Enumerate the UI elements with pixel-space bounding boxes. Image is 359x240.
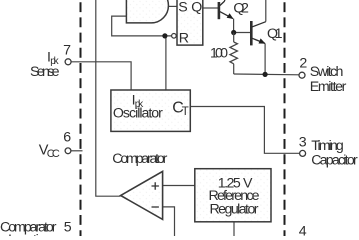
IC boundary dashed line left: [80, 2, 82, 236]
svg-text:Switch: Switch: [310, 64, 344, 80]
wire: comparator output up left side: [96, 0, 121, 196]
latch (S-R flip flop): [177, 0, 203, 45]
wire: Q2 emitter down to node: [233, 19, 235, 33]
junction emitter rail node: [263, 72, 268, 77]
junction oscillator/R node: [162, 33, 167, 38]
wire: Vcc stub pin 6: [71, 150, 83, 152]
pin 3 terminal: [300, 150, 306, 156]
svg-text:Q: Q: [191, 0, 202, 16]
oscillator box: [111, 90, 190, 131]
wire: oscillator output up to R / AND gate: [166, 36, 172, 91]
wire: reference to comparator + input: [163, 185, 195, 187]
pin 7 terminal: [65, 59, 71, 65]
svg-text:4: 4: [299, 224, 307, 236]
wire: pin 7 Ipk sense to oscillator: [71, 62, 132, 91]
resistor 100 leads: [233, 33, 235, 43]
wire: CT to pin 3: [190, 107, 299, 154]
wire: Q1 collector up: [265, 0, 267, 22]
wire: node to Q1 base: [234, 32, 251, 34]
svg-text:Q1: Q1: [267, 26, 283, 42]
pin 6 terminal: [65, 148, 71, 154]
wire: latch Q to Q2 base: [203, 7, 219, 9]
svg-text:3: 3: [299, 134, 307, 150]
resistor R 100 zigzag: [230, 42, 237, 64]
AND gate U1: [126, 0, 168, 23]
wire: Q1 emitter down: [264, 44, 266, 75]
transistor Q2: [219, 0, 233, 19]
svg-text:Inverting: Inverting: [8, 232, 52, 236]
svg-text:Oscillator: Oscillator: [113, 106, 163, 122]
svg-text:Capacitor: Capacitor: [311, 153, 358, 169]
svg-text:5: 5: [64, 219, 72, 235]
svg-text:7: 7: [63, 43, 71, 59]
svg-text:6: 6: [63, 130, 71, 146]
wire: oscillator net to AND gate lower input: [112, 16, 166, 36]
svg-text:Emitter: Emitter: [310, 79, 347, 95]
svg-text:T: T: [182, 106, 189, 118]
svg-text:2: 2: [299, 56, 307, 72]
svg-text:S: S: [178, 0, 187, 16]
svg-text:Sense: Sense: [30, 64, 60, 80]
svg-text:Regulator: Regulator: [210, 201, 259, 217]
Q1 emitter arrow: [259, 38, 266, 43]
R input bubble: [172, 34, 177, 39]
pin 2 terminal: [299, 72, 305, 78]
transistor Q1: [251, 21, 265, 45]
wire: comparator - input down to pin 5: [163, 207, 175, 236]
svg-text:Comparator: Comparator: [112, 151, 167, 167]
comparator + input mark: [152, 182, 159, 189]
svg-text:R: R: [179, 30, 189, 46]
IC boundary dashed line right: [284, 2, 286, 236]
svg-text:100: 100: [210, 46, 228, 62]
wire: reference regulator to ground pin 4: [233, 222, 235, 236]
wire: emitter rail to pin 2: [234, 73, 300, 76]
junction Q2 emitter node: [231, 30, 236, 35]
Q2 emitter arrow: [227, 13, 234, 19]
comparator - input mark: [152, 206, 159, 208]
svg-text:CC: CC: [47, 148, 60, 160]
1.25 V reference regulator box: [195, 169, 271, 222]
svg-text:Q2: Q2: [233, 0, 249, 16]
wire: AND output to latch S: [168, 5, 177, 7]
comparator U2: [121, 171, 163, 219]
